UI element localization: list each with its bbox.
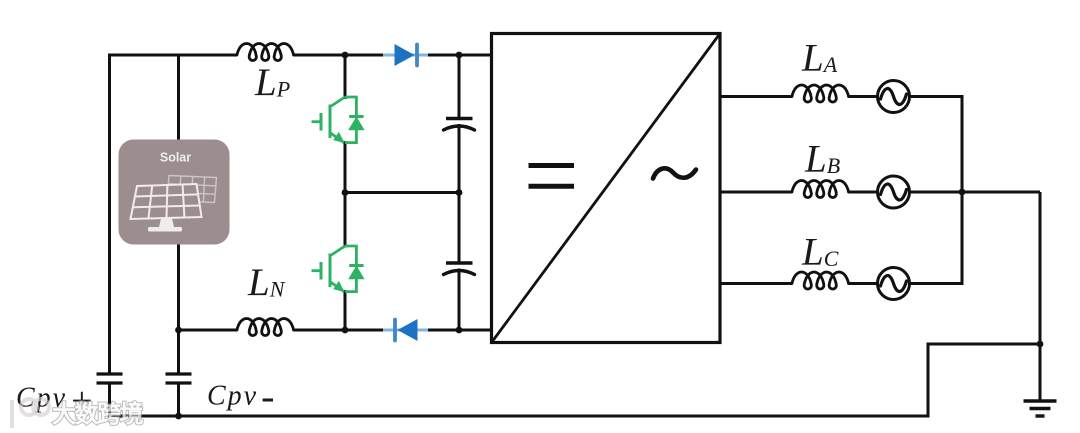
DC symbol (=) inside U1 xyxy=(529,166,575,187)
wire: light-blue lead of diode D1 xyxy=(383,54,428,57)
transistor Q1 (upper IGBT with antiparallel diode) xyxy=(312,97,364,143)
wire: top DC rail xyxy=(110,54,491,57)
wire: phase C output xyxy=(720,282,962,285)
wire: bottom return rail to ground bus xyxy=(108,344,1040,416)
wire: IGBT leg column xyxy=(344,55,347,330)
node junction 8 xyxy=(175,413,182,420)
solar panel icon xyxy=(119,140,230,245)
wire: Cpv+ lower lead to return rail xyxy=(108,385,111,417)
inductor LC xyxy=(792,272,849,289)
inductor LP xyxy=(237,44,294,61)
wire: bottom DC rail (LN line) xyxy=(179,329,491,332)
wire: middle rail between IGBT leg and capacitors xyxy=(345,191,459,194)
node junction 4 xyxy=(456,189,463,196)
capacitor Cdc2 (lower DC-link) xyxy=(444,263,475,275)
AC source Va xyxy=(878,81,910,113)
capacitor Cpv+ xyxy=(97,374,123,383)
wire: right AC bus joining phases xyxy=(961,95,964,285)
ground symbol xyxy=(1024,401,1057,416)
node junction 10 xyxy=(1037,341,1044,348)
wire: phase B output xyxy=(720,191,1040,194)
node junction 7 xyxy=(175,327,182,334)
wire: DC-link capacitor column xyxy=(458,55,461,330)
node junction 2 xyxy=(456,52,463,59)
wire: light-blue lead of diode D2 xyxy=(383,329,428,332)
wire: left column (PV+) xyxy=(108,54,111,373)
AC source Vc xyxy=(878,268,910,300)
capacitor Cpv- xyxy=(166,374,192,383)
AC source Vb xyxy=(878,176,910,208)
svg-text:Solar: Solar xyxy=(160,151,191,165)
inductor LB xyxy=(792,181,849,198)
transistor Q2 (lower IGBT with antiparallel diode) xyxy=(312,246,364,292)
node junction 9 xyxy=(959,189,966,196)
inductor LN xyxy=(237,319,294,336)
capacitor Cdc1 (upper DC-link) xyxy=(444,119,475,131)
inductor LA xyxy=(792,85,849,102)
diode D1 (boost diode, top) xyxy=(395,44,418,66)
AC symbol (~) inside U1 xyxy=(653,168,696,178)
inverter U1 (DC/AC converter box) xyxy=(492,34,721,343)
node junction 5 xyxy=(342,327,349,334)
wire: ground drop xyxy=(1039,192,1042,401)
svg-text:大数跨境: 大数跨境 xyxy=(52,400,143,428)
wire: phase A output xyxy=(720,95,962,98)
node junction 6 xyxy=(456,327,463,334)
node junction 1 xyxy=(342,52,349,59)
wire: solar / Cpv- column xyxy=(177,55,180,373)
wire: Cpv- lower lead to return rail xyxy=(177,385,180,417)
diode D2 (boost diode, bottom, pointing left) xyxy=(395,319,418,341)
node junction 3 xyxy=(342,189,349,196)
watermark logo xyxy=(12,399,143,428)
